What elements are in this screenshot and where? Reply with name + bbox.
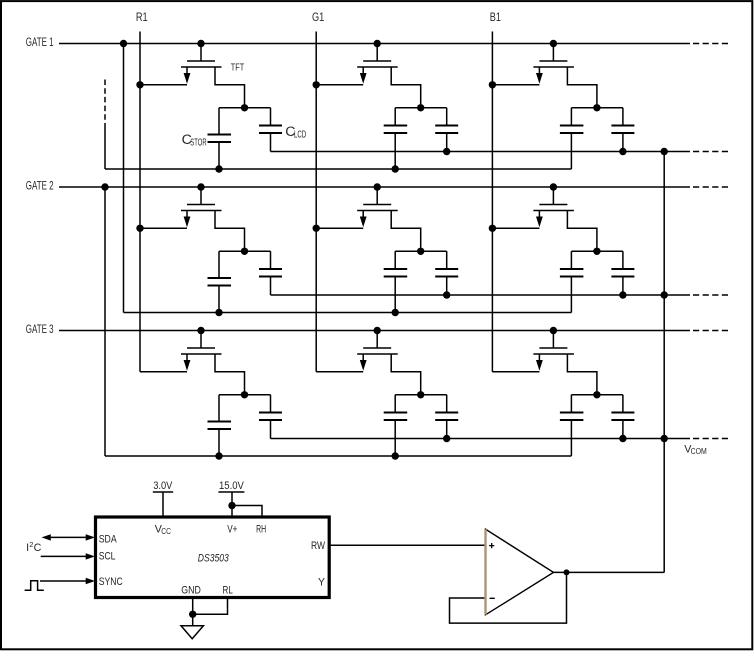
svg-text:R1: R1 <box>136 10 148 24</box>
svg-text:TFT: TFT <box>231 62 244 73</box>
svg-text:CC: CC <box>161 527 171 536</box>
svg-text:G1: G1 <box>312 10 324 24</box>
svg-text:3.0V: 3.0V <box>153 480 173 492</box>
svg-text:15.0V: 15.0V <box>219 480 244 492</box>
svg-text:Y: Y <box>318 577 325 589</box>
svg-text:RL: RL <box>223 584 233 596</box>
svg-text:STOR: STOR <box>190 137 206 148</box>
svg-text:SCL: SCL <box>99 550 116 562</box>
svg-text:SYNC: SYNC <box>99 576 123 588</box>
svg-text:GATE 2: GATE 2 <box>26 179 54 193</box>
svg-text:RH: RH <box>256 523 266 535</box>
svg-text:COM: COM <box>691 447 707 456</box>
svg-text:GATE 1: GATE 1 <box>26 35 54 49</box>
svg-text:RW: RW <box>311 540 326 552</box>
svg-text:SDA: SDA <box>99 533 118 545</box>
svg-text:GND: GND <box>181 584 201 596</box>
svg-text:B1: B1 <box>490 10 501 24</box>
svg-text:V+: V+ <box>227 523 237 535</box>
svg-text:DS3503: DS3503 <box>198 552 229 564</box>
svg-text:LCD: LCD <box>294 130 306 141</box>
svg-text:GATE 3: GATE 3 <box>26 322 54 336</box>
svg-text:C: C <box>34 542 42 554</box>
